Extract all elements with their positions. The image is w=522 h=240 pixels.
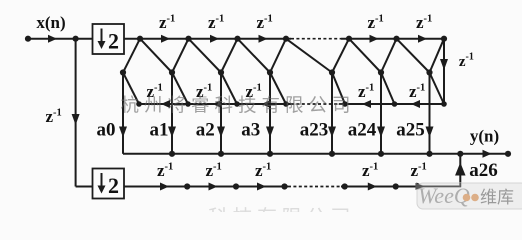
svg-text:a0: a0: [97, 120, 116, 141]
svg-text:-1: -1: [424, 14, 433, 25]
svg-text:维库: 维库: [480, 188, 514, 207]
svg-text:-1: -1: [167, 14, 176, 25]
svg-text:-1: -1: [264, 14, 273, 25]
svg-text:公: 公: [306, 207, 326, 212]
svg-text:有: 有: [257, 206, 277, 212]
svg-text:a2: a2: [196, 120, 215, 141]
svg-text:司: 司: [332, 97, 351, 117]
svg-text:y(n): y(n): [470, 127, 499, 146]
svg-text:有: 有: [262, 96, 281, 117]
svg-text:科: 科: [208, 206, 228, 212]
svg-text:公: 公: [309, 97, 328, 117]
svg-text:-1: -1: [418, 162, 427, 173]
svg-text:州: 州: [144, 97, 163, 117]
svg-text:a25: a25: [396, 120, 425, 141]
svg-text:科: 科: [215, 96, 234, 117]
svg-text:-1: -1: [417, 83, 426, 94]
svg-text:-1: -1: [165, 162, 174, 173]
svg-text:限: 限: [285, 96, 304, 117]
svg-text:-1: -1: [375, 14, 384, 25]
svg-text:a1: a1: [150, 120, 169, 141]
svg-text:-1: -1: [53, 108, 62, 119]
svg-text:a3: a3: [241, 120, 260, 141]
svg-text:2: 2: [108, 29, 119, 54]
svg-text:将: 将: [168, 96, 187, 117]
svg-text:技: 技: [233, 206, 253, 212]
svg-text:睿: 睿: [191, 96, 210, 117]
svg-text:x(n): x(n): [36, 13, 65, 32]
svg-text:-1: -1: [253, 83, 262, 94]
svg-text:技: 技: [238, 96, 257, 117]
svg-text:-1: -1: [204, 83, 213, 94]
svg-text:司: 司: [331, 207, 351, 212]
svg-text:-1: -1: [216, 14, 225, 25]
svg-text:a23: a23: [300, 120, 329, 141]
svg-text:-1: -1: [154, 83, 163, 94]
svg-text:WeeQ: WeeQ: [418, 183, 470, 208]
svg-text:-1: -1: [370, 162, 379, 173]
svg-text:-1: -1: [366, 83, 375, 94]
svg-text:a24: a24: [348, 120, 377, 141]
svg-text:2: 2: [108, 173, 119, 198]
svg-text:-1: -1: [263, 162, 272, 173]
svg-text:杭: 杭: [121, 96, 140, 117]
svg-text:a26: a26: [469, 160, 498, 181]
svg-text:限: 限: [282, 206, 302, 212]
svg-text:-1: -1: [213, 162, 222, 173]
svg-text:-1: -1: [466, 52, 474, 63]
